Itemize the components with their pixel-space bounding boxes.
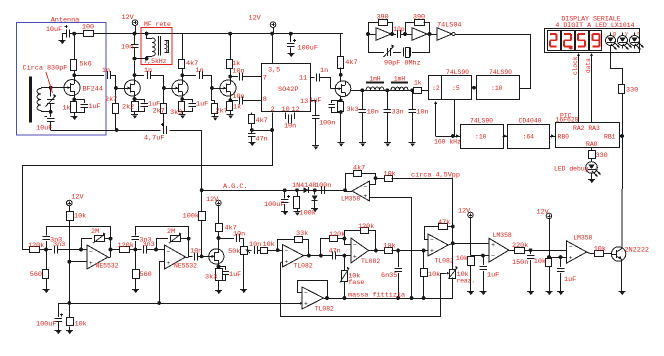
svg-text:10k: 10k (384, 171, 396, 179)
svg-text:4,7uF: 4,7uF (144, 135, 164, 143)
svg-text:+: + (285, 259, 289, 266)
svg-text:RB1: RB1 (604, 134, 616, 141)
svg-text:10n: 10n (284, 123, 296, 131)
svg-text:3k3: 3k3 (347, 106, 359, 114)
svg-text:CD4040: CD4040 (519, 118, 542, 125)
svg-text:10uF: 10uF (46, 26, 62, 34)
svg-text:50k: 50k (228, 248, 240, 256)
svg-text:TL082: TL082 (435, 258, 454, 265)
svg-text:RB0: RB0 (558, 134, 570, 141)
svg-text:−: − (569, 244, 573, 251)
svg-text:12V: 12V (206, 196, 219, 204)
svg-text:3k3: 3k3 (170, 109, 182, 117)
svg-text:BF244: BF244 (83, 86, 103, 94)
svg-text:TL082: TL082 (361, 258, 380, 265)
svg-text:10k: 10k (534, 258, 546, 266)
svg-text:LED debug: LED debug (554, 166, 589, 173)
svg-text:+: + (89, 260, 93, 267)
svg-text::2: :2 (432, 85, 440, 92)
svg-text:10n: 10n (249, 241, 261, 249)
svg-text::5: :5 (452, 85, 460, 92)
svg-text:+: + (167, 260, 171, 267)
svg-text:1uF: 1uF (196, 101, 208, 109)
svg-text:4k7: 4k7 (353, 165, 365, 173)
svg-text:10n: 10n (232, 93, 244, 101)
svg-text:390: 390 (413, 14, 425, 22)
svg-text:13: 13 (300, 98, 308, 106)
svg-text:330: 330 (626, 87, 638, 95)
svg-text:12V: 12V (458, 208, 471, 216)
svg-text:2k7: 2k7 (153, 108, 165, 116)
svg-text:−: − (430, 237, 434, 244)
svg-text:LM358: LM358 (493, 232, 512, 239)
svg-text:560: 560 (140, 271, 152, 279)
svg-text:10n: 10n (416, 109, 428, 117)
svg-text:74LS90: 74LS90 (489, 69, 512, 76)
svg-text:100k: 100k (300, 210, 316, 218)
svg-text:74LS90: 74LS90 (446, 69, 469, 76)
svg-text:100n: 100n (315, 182, 331, 190)
svg-text:120k: 120k (118, 242, 134, 250)
svg-text:1n: 1n (144, 67, 152, 75)
svg-text:1uF: 1uF (229, 271, 241, 279)
svg-text::10: :10 (475, 134, 487, 141)
svg-text:Circa 830pF: Circa 830pF (23, 65, 68, 73)
svg-text:2k7: 2k7 (105, 96, 117, 104)
svg-text:100k: 100k (183, 213, 199, 221)
svg-text:12V: 12V (122, 14, 135, 22)
svg-text:2N2222: 2N2222 (625, 247, 649, 255)
svg-text:+: + (364, 193, 368, 200)
svg-text:7: 7 (263, 75, 267, 83)
svg-text:220k: 220k (512, 242, 528, 250)
svg-text:r: r (637, 31, 640, 37)
svg-text:150n: 150n (512, 259, 528, 267)
svg-text:1mH: 1mH (369, 76, 380, 83)
svg-text:A.G.C.: A.G.C. (223, 183, 247, 191)
svg-text:−: − (167, 249, 171, 256)
svg-text:Antenna: Antenna (51, 17, 80, 25)
svg-text:data: data (585, 58, 592, 73)
svg-text:+: + (491, 242, 495, 249)
svg-text:33k: 33k (296, 230, 308, 238)
svg-text:10uF: 10uF (36, 125, 52, 133)
svg-text:12: 12 (292, 106, 300, 114)
svg-text:6n35: 6n35 (381, 272, 397, 280)
svg-text::64: :64 (523, 134, 535, 141)
svg-text:1uF: 1uF (309, 97, 321, 105)
svg-text:3n3: 3n3 (139, 237, 151, 245)
svg-text:g: g (613, 31, 616, 37)
svg-text:10n: 10n (121, 44, 133, 52)
svg-text:12V: 12V (537, 209, 550, 217)
svg-text:90pF 8Mhz: 90pF 8Mhz (384, 60, 421, 68)
svg-text:+: + (353, 253, 357, 260)
svg-text:12V: 12V (71, 194, 84, 202)
svg-text:160 kHz: 160 kHz (434, 139, 461, 146)
svg-text:+: + (304, 300, 308, 307)
svg-text:1k: 1k (233, 104, 241, 112)
svg-text:10k: 10k (456, 255, 468, 263)
svg-text:330: 330 (596, 152, 608, 160)
svg-text:TL082: TL082 (315, 306, 334, 313)
svg-text:10k: 10k (74, 213, 86, 221)
svg-text:LM358: LM358 (341, 196, 360, 203)
svg-text:120k: 120k (28, 242, 44, 250)
svg-text:74LS90: 74LS90 (470, 118, 493, 125)
svg-text:2M: 2M (91, 228, 99, 236)
svg-text:1k: 1k (62, 105, 70, 113)
svg-text:10k: 10k (75, 321, 87, 329)
svg-text:10p: 10p (393, 26, 404, 33)
svg-text:RA0: RA0 (586, 141, 598, 148)
svg-text:1mH: 1mH (394, 76, 405, 83)
svg-text:y: y (625, 31, 628, 37)
svg-text:fase: fase (348, 279, 364, 287)
svg-text:massa fittizia: massa fittizia (348, 292, 405, 300)
svg-text:2k2: 2k2 (122, 104, 134, 112)
svg-text::10: :10 (491, 85, 503, 92)
svg-text:−: − (491, 253, 495, 260)
svg-text:4k7: 4k7 (345, 59, 357, 67)
svg-text:TL082: TL082 (294, 263, 313, 270)
svg-text:10k: 10k (383, 243, 395, 251)
svg-text:NE5532: NE5532 (96, 263, 119, 270)
svg-text:LM358: LM358 (573, 235, 592, 242)
svg-text:10k: 10k (594, 246, 606, 254)
svg-text:10k: 10k (263, 241, 275, 249)
svg-text:2k7: 2k7 (216, 108, 228, 116)
svg-text:390: 390 (376, 14, 388, 22)
svg-text:+: + (430, 247, 434, 254)
svg-text:8: 8 (263, 96, 267, 104)
svg-text:clock: clock (572, 56, 579, 75)
svg-text:120k: 120k (358, 223, 374, 231)
svg-text:47k: 47k (438, 219, 450, 227)
svg-text:RA2 RA3: RA2 RA3 (573, 125, 600, 132)
svg-text:10n: 10n (232, 68, 244, 76)
svg-text:10n: 10n (190, 248, 202, 256)
svg-text:10n: 10n (367, 109, 379, 117)
svg-text:16F628: 16F628 (556, 117, 579, 124)
svg-text:1uF: 1uF (564, 276, 576, 284)
svg-text:NE5532: NE5532 (174, 263, 197, 270)
svg-text:reaz.: reaz. (457, 278, 476, 285)
svg-text:MF rete: MF rete (144, 21, 171, 28)
svg-text:100: 100 (82, 24, 94, 32)
svg-text:1N4148: 1N4148 (292, 182, 316, 190)
svg-text:100uF: 100uF (298, 45, 318, 53)
svg-text:3n3: 3n3 (50, 237, 62, 245)
svg-text:100n: 100n (319, 120, 335, 128)
svg-text:1n: 1n (195, 67, 203, 75)
svg-text:1k: 1k (414, 80, 422, 87)
svg-text:−: − (285, 248, 289, 255)
svg-text:−: − (353, 242, 357, 249)
svg-text:1n: 1n (320, 67, 328, 75)
svg-text:4 DIGIT A LED LX1014: 4 DIGIT A LED LX1014 (555, 22, 634, 29)
svg-text:1n: 1n (102, 67, 110, 75)
svg-text:5k6: 5k6 (80, 61, 92, 69)
svg-text:−: − (89, 249, 93, 256)
svg-text:47n: 47n (329, 248, 341, 256)
svg-text:100uF: 100uF (36, 321, 56, 329)
svg-text:120k: 120k (329, 231, 345, 239)
svg-text:−: − (364, 184, 368, 191)
svg-text:10k: 10k (428, 271, 440, 279)
svg-text:3k3: 3k3 (205, 274, 217, 282)
svg-text:33n: 33n (392, 109, 404, 117)
svg-text:74LS04: 74LS04 (437, 22, 461, 30)
svg-text:1uF: 1uF (89, 103, 101, 111)
svg-text:2M: 2M (167, 228, 175, 236)
svg-text:560: 560 (30, 271, 42, 279)
svg-text:3,5: 3,5 (268, 67, 280, 75)
svg-text:47n: 47n (256, 136, 268, 144)
svg-text:1uF: 1uF (487, 272, 499, 280)
svg-text:12V: 12V (249, 15, 262, 23)
svg-text:+: + (569, 254, 573, 261)
svg-text:11: 11 (299, 75, 307, 83)
svg-text:4k7: 4k7 (256, 117, 268, 125)
svg-text:SO42P: SO42P (278, 86, 298, 94)
svg-text:10n: 10n (233, 231, 245, 239)
svg-text:−: − (304, 290, 308, 297)
svg-text:100uF: 100uF (264, 201, 284, 209)
